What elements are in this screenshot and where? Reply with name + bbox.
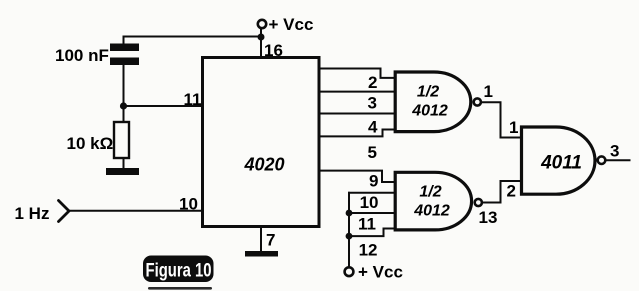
svg-text:9: 9 — [369, 172, 378, 191]
svg-text:16: 16 — [264, 41, 283, 60]
svg-text:1/2: 1/2 — [419, 184, 441, 201]
svg-text:4011: 4011 — [540, 153, 582, 174]
svg-text:100 nF: 100 nF — [55, 46, 109, 65]
svg-text:13: 13 — [479, 208, 498, 227]
svg-text:Figura 10: Figura 10 — [146, 261, 212, 282]
svg-text:1/2: 1/2 — [417, 84, 439, 101]
svg-text:1: 1 — [484, 82, 493, 101]
svg-text:2: 2 — [368, 73, 377, 92]
svg-text:11: 11 — [184, 90, 202, 109]
svg-text:4020: 4020 — [243, 155, 284, 175]
svg-text:10: 10 — [360, 193, 379, 212]
svg-text:12: 12 — [359, 241, 378, 260]
svg-text:2: 2 — [507, 182, 516, 201]
svg-text:1 Hz: 1 Hz — [15, 204, 50, 223]
svg-text:4: 4 — [368, 118, 378, 137]
svg-text:+ Vcc: + Vcc — [269, 15, 314, 34]
svg-text:11: 11 — [358, 215, 376, 234]
svg-text:3: 3 — [368, 94, 377, 113]
svg-text:5: 5 — [368, 143, 377, 162]
svg-text:4012: 4012 — [413, 203, 450, 220]
svg-text:1: 1 — [509, 118, 518, 137]
svg-text:10 kΩ: 10 kΩ — [67, 134, 114, 153]
svg-text:+ Vcc: + Vcc — [358, 263, 403, 282]
svg-text:10: 10 — [179, 195, 198, 214]
svg-text:3: 3 — [610, 142, 619, 161]
svg-text:7: 7 — [266, 231, 275, 250]
svg-text:4012: 4012 — [411, 103, 448, 120]
